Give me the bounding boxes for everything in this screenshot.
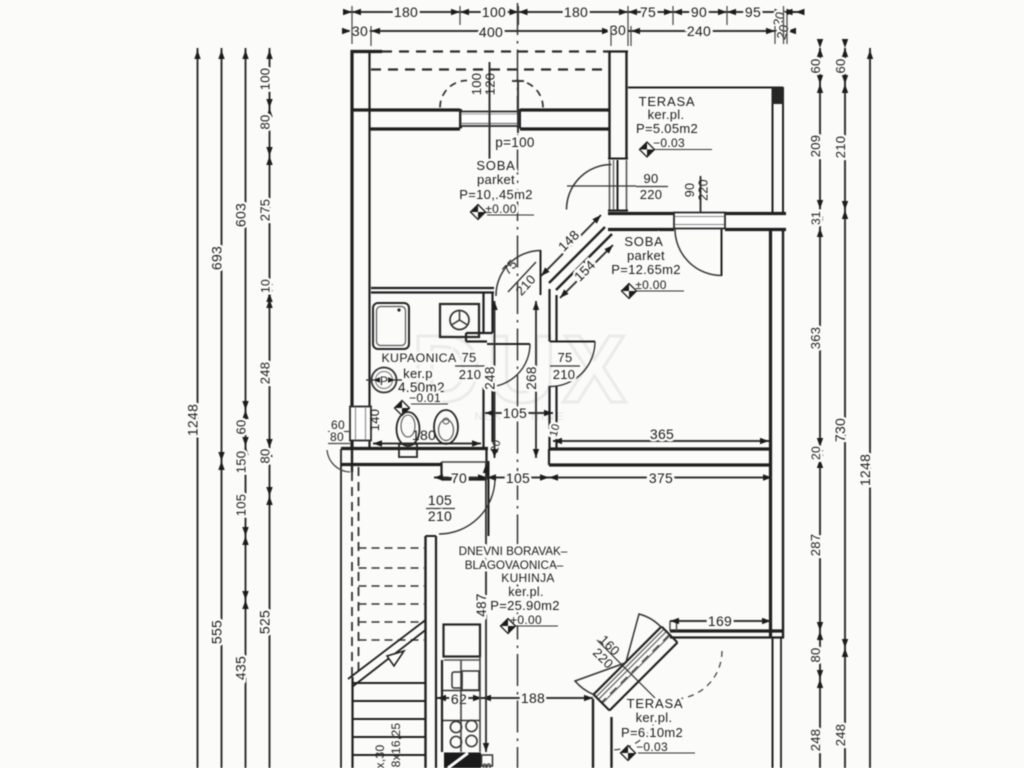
dim 80 bath window bbox=[328, 430, 350, 444]
west wall below window bbox=[352, 441, 370, 449]
svg-text:75: 75 bbox=[640, 4, 656, 20]
label 150 left bbox=[234, 451, 249, 474]
svg-text:75: 75 bbox=[461, 350, 476, 365]
terasa1 south wall bbox=[608, 214, 786, 230]
svg-text:693: 693 bbox=[209, 246, 225, 270]
dim 180 (row1) bbox=[394, 4, 418, 20]
dim 140 bath rotated bbox=[367, 409, 382, 432]
svg-text:80: 80 bbox=[258, 448, 273, 463]
svg-text:275: 275 bbox=[258, 199, 273, 222]
svg-text:30: 30 bbox=[610, 22, 626, 38]
svg-text:210: 210 bbox=[428, 508, 452, 524]
label ker.pl terasa2 bbox=[636, 710, 673, 725]
label 1248 left bbox=[185, 404, 201, 436]
soba1 corridor door arc bbox=[496, 251, 541, 297]
svg-text:90: 90 bbox=[691, 4, 707, 20]
bathroom south wall bbox=[341, 449, 488, 465]
left dim line B bbox=[218, 48, 224, 768]
stair-kitchen wall bbox=[426, 536, 437, 768]
left dim line C bbox=[242, 48, 248, 768]
terasa1 north edge bbox=[628, 87, 783, 89]
label 120 window bbox=[483, 73, 498, 96]
svg-text:248: 248 bbox=[808, 729, 823, 752]
entry door leaf 105/210 bbox=[488, 461, 490, 536]
label 75/210 soba2 door bbox=[550, 350, 580, 382]
dimension row 1 line with ticks bbox=[343, 9, 805, 15]
level diamond living bbox=[501, 619, 516, 634]
label P=10.45m2 bbox=[459, 187, 532, 202]
label 60 left bbox=[234, 419, 249, 434]
label 75 soba1 door bbox=[499, 256, 520, 277]
label 1248 right bbox=[857, 454, 873, 486]
label +0.00 living bbox=[510, 613, 558, 627]
svg-text:105: 105 bbox=[234, 494, 249, 517]
label DNEVNI BORAVAK bbox=[459, 545, 568, 558]
bath door arc bbox=[487, 344, 530, 387]
svg-text:210: 210 bbox=[459, 367, 482, 382]
svg-text:P: P bbox=[380, 374, 388, 388]
dim 188 bbox=[482, 690, 593, 706]
label 10 left bbox=[259, 279, 273, 293]
svg-text:435: 435 bbox=[233, 656, 249, 680]
west wall bath segment bbox=[368, 293, 370, 406]
window axis tick right bbox=[512, 81, 524, 133]
svg-text:DNEVNI BORAVAK–: DNEVNI BORAVAK– bbox=[459, 545, 568, 558]
kitchen burners bbox=[450, 720, 477, 747]
label 105/210 entry bbox=[426, 492, 455, 524]
window swing dashed arc right bbox=[516, 81, 543, 108]
label 60 r1 bbox=[808, 58, 823, 73]
window 90/220 soba2 bbox=[674, 213, 725, 229]
label 210 r2 bbox=[833, 136, 848, 159]
svg-text:248: 248 bbox=[833, 724, 848, 747]
svg-text:555: 555 bbox=[209, 620, 225, 644]
svg-text:70: 70 bbox=[451, 470, 467, 486]
label ker.pl living bbox=[508, 585, 543, 599]
dim 90 (row1) bbox=[691, 4, 707, 20]
dim 400 (row2) bbox=[479, 24, 503, 40]
label 555 bbox=[209, 620, 225, 644]
dim 180b (row1) bbox=[564, 4, 588, 20]
extension lines top ticks bbox=[352, 6, 787, 46]
right dim line 1 bbox=[817, 39, 823, 768]
svg-text:60: 60 bbox=[234, 419, 249, 434]
left dim line D bbox=[266, 48, 272, 768]
stair direction arrow bbox=[387, 651, 404, 666]
dim 30 (row2 left wall) bbox=[352, 23, 368, 39]
svg-text:P=5.05m2: P=5.05m2 bbox=[636, 121, 698, 136]
terasa2 east edge bbox=[773, 638, 782, 768]
svg-text:730: 730 bbox=[832, 418, 848, 442]
kitchen counter outline bbox=[442, 656, 480, 752]
label P=5.05m2 bbox=[636, 121, 698, 136]
svg-text:60: 60 bbox=[833, 58, 848, 73]
dim 20 rotated entry bbox=[489, 438, 504, 454]
dim 100 (row1) bbox=[482, 4, 506, 20]
label 209 bbox=[808, 135, 823, 158]
svg-text:−0.03: −0.03 bbox=[653, 136, 685, 150]
label 248 r2 bbox=[833, 724, 848, 747]
label ker.pl bath bbox=[403, 366, 433, 381]
svg-text:105: 105 bbox=[503, 405, 527, 421]
label SOBA 1 bbox=[476, 158, 515, 173]
centerline axis bbox=[517, 3, 519, 768]
svg-text:60: 60 bbox=[808, 58, 823, 73]
label TERASA 2 bbox=[627, 696, 684, 711]
level diamond bath bbox=[395, 401, 410, 416]
diagonal wall soba/soba2 bbox=[549, 227, 612, 290]
svg-text:−0.03: −0.03 bbox=[636, 740, 668, 754]
svg-text:268: 268 bbox=[524, 366, 539, 389]
living south wall bbox=[670, 621, 784, 638]
svg-text:1248: 1248 bbox=[185, 404, 201, 436]
watermark big letters bbox=[412, 316, 633, 423]
bathtub bbox=[373, 303, 409, 349]
west small arc bbox=[327, 450, 350, 472]
dim 268 corridor bbox=[524, 301, 539, 458]
west wall upper (balcony/soba) bbox=[352, 50, 370, 131]
label +0.00 soba2 bbox=[635, 278, 684, 292]
dim 62 bbox=[437, 691, 482, 707]
axis 90/220 rotated label bbox=[683, 176, 711, 212]
svg-text:ker.p: ker.p bbox=[403, 366, 433, 381]
svg-text:P=12.65m2: P=12.65m2 bbox=[611, 262, 681, 277]
svg-text:SOBA: SOBA bbox=[476, 158, 515, 173]
label 105 leftC bbox=[234, 494, 249, 517]
label 275 left bbox=[258, 199, 273, 222]
terasa door frame bbox=[608, 160, 628, 211]
label 730 bbox=[832, 418, 848, 442]
kitchen sink boxes bbox=[452, 671, 479, 690]
svg-text:100: 100 bbox=[258, 68, 273, 91]
soba north wall inner line bbox=[369, 127, 609, 130]
svg-text:p=100: p=100 bbox=[495, 135, 534, 150]
svg-text:287: 287 bbox=[808, 534, 823, 557]
svg-text:parket: parket bbox=[627, 248, 665, 263]
svg-text:180: 180 bbox=[394, 4, 418, 20]
level diamond soba2 bbox=[622, 284, 637, 299]
bath door leaf bbox=[487, 343, 530, 345]
svg-text:169: 169 bbox=[708, 613, 732, 629]
svg-text:487: 487 bbox=[474, 593, 489, 616]
label 8 bottom bbox=[480, 762, 494, 768]
stair treads solid lower flight bbox=[353, 683, 425, 755]
dim 60 bath window bbox=[328, 418, 350, 432]
svg-text:62: 62 bbox=[451, 691, 467, 707]
svg-text:188: 188 bbox=[521, 690, 545, 706]
label 80 left2 bbox=[258, 448, 273, 463]
label 75/210 bath door bbox=[455, 350, 485, 382]
soba1 corridor door leaf bbox=[540, 250, 542, 295]
stair label 7x30 bbox=[373, 745, 387, 768]
label parket 2 bbox=[627, 248, 665, 263]
label 80 r1 bbox=[808, 647, 823, 662]
svg-text:−0.01: −0.01 bbox=[409, 391, 441, 405]
soba2 door leaf bbox=[721, 229, 723, 276]
svg-text:105: 105 bbox=[428, 492, 452, 508]
west wall lower solid bbox=[351, 677, 353, 768]
label 90/220 terasa door bbox=[567, 171, 668, 202]
right dim line 3 bbox=[867, 48, 873, 768]
label 693 bbox=[209, 246, 225, 270]
svg-text:603: 603 bbox=[233, 203, 249, 227]
stairwell dashed boundary bbox=[352, 467, 359, 677]
label 20 r1 bbox=[809, 446, 823, 460]
svg-text:248: 248 bbox=[258, 362, 273, 385]
bath east wall lower bbox=[484, 387, 493, 449]
balcony second dashed line bbox=[371, 68, 608, 70]
stair break line bbox=[348, 620, 426, 687]
diag door dashed arc upper bbox=[674, 651, 722, 699]
floor drain P symbol bbox=[366, 368, 402, 393]
label 75/210 soba1 door divider bbox=[508, 262, 536, 292]
svg-text:P=6.10m2: P=6.10m2 bbox=[621, 725, 683, 740]
dim 169 bbox=[670, 613, 771, 629]
svg-text:10: 10 bbox=[259, 279, 273, 293]
svg-text:365: 365 bbox=[650, 426, 674, 442]
washer niche cap bbox=[466, 333, 493, 342]
balcony top edge solid corner bbox=[351, 50, 382, 53]
svg-text:P=10,.45m2: P=10,.45m2 bbox=[459, 187, 532, 202]
svg-text:80: 80 bbox=[258, 114, 273, 129]
svg-text:30: 30 bbox=[352, 23, 368, 39]
label 60 r2 bbox=[833, 58, 848, 73]
level diamond terasa2 bbox=[621, 746, 636, 761]
toilet bbox=[397, 412, 420, 457]
bath window west bbox=[350, 407, 371, 441]
window swing dashed arc left bbox=[440, 81, 467, 108]
label 220 diag bbox=[590, 645, 617, 672]
window axis 100/120 bbox=[489, 62, 491, 160]
dim 365 bbox=[553, 426, 769, 444]
svg-text:TERASA: TERASA bbox=[627, 696, 684, 711]
label 210 soba1 door bbox=[513, 272, 539, 299]
label TERASA 1 bbox=[639, 94, 696, 109]
svg-text:525: 525 bbox=[257, 610, 273, 634]
soba2 door arc bbox=[675, 229, 722, 276]
svg-text:SOBA: SOBA bbox=[624, 234, 663, 249]
label 100 window bbox=[469, 73, 484, 96]
dim 10 corridor bbox=[548, 422, 563, 438]
label P=12.65m2 bbox=[611, 262, 681, 277]
right dim line 2 bbox=[842, 39, 848, 768]
diag door dashed arc lower bbox=[611, 702, 659, 750]
soba2 corridor door leaf bbox=[550, 341, 595, 343]
svg-text:375: 375 bbox=[649, 470, 673, 486]
label 80 left1 bbox=[258, 114, 273, 129]
svg-text:KUHINJA: KUHINJA bbox=[501, 571, 554, 585]
svg-text:±0.00: ±0.00 bbox=[635, 278, 666, 292]
label p=100 bbox=[495, 135, 534, 150]
stair treads dashed upper flight bbox=[359, 548, 425, 640]
soba north wall jambs bbox=[461, 109, 520, 129]
dim 180 bath bbox=[373, 427, 481, 447]
bathroom north wall bbox=[371, 288, 494, 293]
dim 30b (row2) bbox=[610, 22, 626, 38]
entry door jamb block bbox=[442, 449, 487, 480]
label 287 bbox=[808, 534, 823, 557]
svg-text:180: 180 bbox=[564, 4, 588, 20]
svg-text:248: 248 bbox=[483, 366, 498, 389]
soba-terasa wall bbox=[608, 51, 628, 159]
svg-text:8x16,25: 8x16,25 bbox=[389, 723, 403, 768]
svg-text:105: 105 bbox=[506, 470, 530, 486]
corridor right wall upper bbox=[550, 289, 557, 342]
terasa door swing arc bbox=[567, 165, 612, 210]
washing machine bbox=[440, 304, 479, 337]
svg-text:210: 210 bbox=[833, 136, 848, 159]
label 31 bbox=[809, 211, 823, 225]
svg-text:±0.00: ±0.00 bbox=[485, 202, 516, 216]
kitchen fridge bbox=[444, 625, 481, 661]
label parket 1 bbox=[477, 172, 515, 187]
label KUHINJA bbox=[501, 571, 554, 585]
label 248 r1 bbox=[808, 729, 823, 752]
svg-text:7x,30: 7x,30 bbox=[373, 745, 387, 768]
dimension row 2 line with ticks bbox=[342, 28, 796, 34]
label 248 left bbox=[258, 362, 273, 385]
diag door lower leaf and arc bbox=[575, 663, 625, 695]
label -0.01 bath bbox=[409, 391, 448, 405]
corridor right wall lower bbox=[550, 386, 557, 449]
svg-text:100: 100 bbox=[482, 4, 506, 20]
stair label 8x16,25 bbox=[389, 723, 403, 768]
dim 95 (row1) bbox=[745, 4, 761, 20]
svg-text:80: 80 bbox=[808, 647, 823, 662]
label SOBA 2 bbox=[624, 234, 663, 249]
svg-text:363: 363 bbox=[808, 327, 823, 350]
east wall bbox=[771, 230, 784, 638]
label 160/220 leader bbox=[597, 640, 655, 698]
label -0.03 terasa1 bbox=[653, 136, 712, 150]
dim 240 (row2) bbox=[687, 23, 711, 39]
svg-text:ker.pl.: ker.pl. bbox=[508, 585, 543, 599]
label 525 bbox=[257, 610, 273, 634]
soba north wall outer line bbox=[351, 108, 609, 111]
watermark subtitle bbox=[475, 411, 566, 423]
svg-text:209: 209 bbox=[808, 135, 823, 158]
diagonal door 160/220 band bbox=[594, 627, 678, 711]
label P=6.10m2 bbox=[621, 725, 683, 740]
level diamond soba1 bbox=[471, 205, 486, 220]
svg-text:210: 210 bbox=[553, 367, 576, 382]
soba2 corridor door arc bbox=[550, 342, 595, 387]
svg-text:150: 150 bbox=[234, 451, 249, 474]
svg-text:ker.pl.: ker.pl. bbox=[636, 710, 673, 725]
label +0.00 soba1 bbox=[485, 202, 534, 216]
svg-text:90: 90 bbox=[683, 183, 697, 198]
label BLAGOVAONICA bbox=[465, 559, 564, 572]
svg-text:75: 75 bbox=[557, 350, 572, 365]
svg-text:140: 140 bbox=[367, 409, 382, 432]
svg-text:95: 95 bbox=[745, 4, 761, 20]
label 100 left bbox=[258, 68, 273, 91]
terasa1 east wall bbox=[772, 87, 785, 213]
dim 75 (row1) bbox=[640, 4, 656, 20]
bidet bbox=[434, 410, 458, 444]
svg-text:220: 220 bbox=[640, 187, 663, 202]
label ker.pl. terasa1 bbox=[648, 107, 685, 122]
dim 487 bbox=[474, 462, 489, 752]
svg-text:20: 20 bbox=[809, 446, 823, 460]
svg-text:1248: 1248 bbox=[857, 454, 873, 486]
label P=4.50m2 bbox=[398, 380, 445, 395]
kitchen counter lines bbox=[443, 691, 480, 721]
dim 148 diagonal bbox=[541, 215, 601, 276]
svg-text:ker.pl.: ker.pl. bbox=[648, 107, 685, 122]
svg-text:240: 240 bbox=[687, 23, 711, 39]
label 603 bbox=[233, 203, 249, 227]
label 363 bbox=[808, 327, 823, 350]
west wall lower bbox=[341, 449, 352, 768]
label -0.03 terasa2 bbox=[636, 740, 695, 754]
kitchen stove bbox=[444, 753, 493, 768]
svg-text:31: 31 bbox=[809, 211, 823, 225]
window 100/120 soba north bbox=[461, 112, 520, 127]
label 435 bbox=[233, 656, 249, 680]
dim 20 rotated (row2 right) bbox=[773, 23, 791, 41]
west wall middle bbox=[352, 131, 370, 406]
label 160 diag bbox=[596, 632, 623, 659]
dim 375 bbox=[549, 470, 772, 486]
svg-text:parket: parket bbox=[477, 172, 515, 187]
svg-text:120: 120 bbox=[483, 73, 498, 96]
dim 248 corridor bbox=[483, 301, 498, 458]
left dim line A (1248) bbox=[194, 48, 200, 768]
svg-text:220: 220 bbox=[697, 179, 711, 201]
svg-text:80: 80 bbox=[330, 430, 344, 444]
level diamond terasa1 bbox=[640, 142, 655, 157]
dim 105 corridor bbox=[485, 405, 553, 421]
terasa2 west wall bbox=[593, 699, 612, 768]
diag door upper leaf and arc bbox=[626, 614, 662, 662]
bath east wall upper bbox=[484, 292, 493, 333]
label P=25.90m2 bbox=[490, 598, 560, 613]
dim 20 rotated (top right) bbox=[770, 10, 787, 28]
svg-text:90: 90 bbox=[643, 171, 658, 186]
dim 70 and 105 entry bbox=[434, 470, 549, 486]
svg-text:P=25.90m2: P=25.90m2 bbox=[490, 598, 560, 613]
svg-text:400: 400 bbox=[479, 24, 503, 40]
label KUPAONICA 75 bbox=[381, 351, 457, 365]
living north wall (right) bbox=[549, 449, 772, 465]
entry door arc bbox=[439, 480, 495, 535]
balcony top edge dashed bbox=[382, 50, 608, 52]
svg-text:KUPAONICA: KUPAONICA bbox=[381, 351, 457, 365]
dim 154 diagonal bbox=[560, 245, 613, 298]
